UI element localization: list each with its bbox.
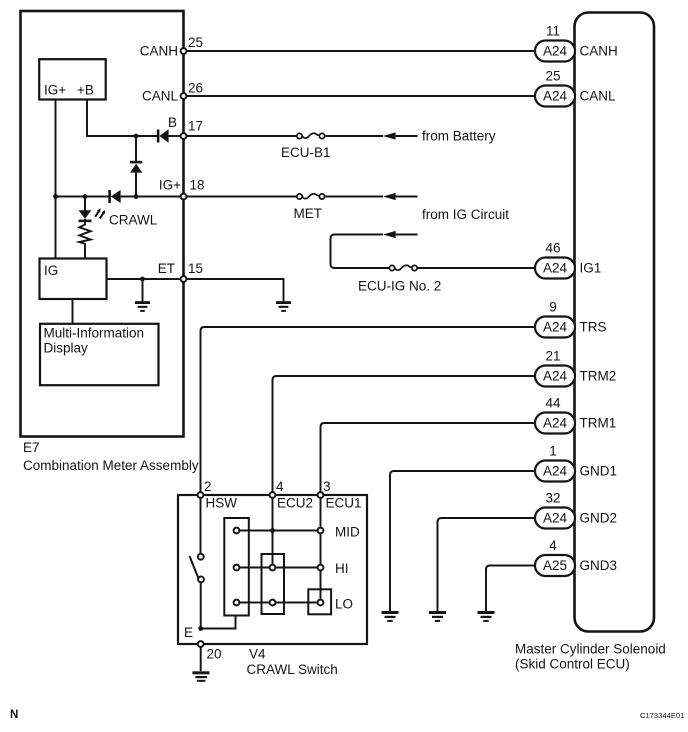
svg-text:E: E bbox=[184, 625, 193, 640]
ground GND2 bbox=[429, 611, 446, 622]
svg-text:(Skid Control ECU): (Skid Control ECU) bbox=[515, 657, 630, 672]
connector A24 pin 1 GND1 bbox=[535, 444, 617, 482]
svg-text:Combination Meter Assembly: Combination Meter Assembly bbox=[23, 458, 199, 473]
pin circle 4 ECU2 bbox=[270, 492, 276, 498]
svg-text:+B: +B bbox=[77, 83, 94, 98]
svg-text:18: 18 bbox=[190, 178, 205, 193]
svg-text:25: 25 bbox=[545, 69, 560, 84]
connector A25 pin 4 GND3 bbox=[535, 538, 617, 576]
contact circle LO slider1 bbox=[234, 600, 240, 606]
resistor (zigzag) bbox=[79, 222, 90, 258]
svg-text:CANL: CANL bbox=[580, 89, 617, 104]
wire IG+ drop through row 18 into IG box bbox=[55, 100, 57, 259]
wire ECU2 vertical bbox=[272, 495, 274, 568]
svg-text:A24: A24 bbox=[543, 416, 568, 431]
pin circle 15 bbox=[181, 276, 187, 282]
switch block MID/HI/LO left slider bbox=[224, 518, 249, 616]
wire CANL row pin 26 to A24 bbox=[184, 95, 536, 97]
wire ECU1 vertical bbox=[320, 495, 322, 603]
wire GND1 row to ground bbox=[390, 471, 535, 611]
svg-text:CANH: CANH bbox=[140, 44, 178, 59]
svg-text:IG: IG bbox=[44, 263, 58, 278]
contact circle HI slider2 bbox=[270, 565, 276, 571]
fuse ECU-B1 bbox=[281, 133, 331, 160]
wire diode to pin 18 bbox=[121, 196, 184, 198]
svg-text:TRM1: TRM1 bbox=[580, 416, 617, 431]
svg-text:21: 21 bbox=[545, 349, 560, 364]
svg-text:2: 2 bbox=[204, 479, 212, 494]
wire IG circuit branch row bbox=[396, 234, 418, 236]
svg-text:V4: V4 bbox=[249, 647, 266, 662]
svg-text:A24: A24 bbox=[543, 464, 568, 479]
junction row18/branch bbox=[134, 194, 139, 199]
master cylinder solenoid (skid control ECU) box bbox=[515, 13, 666, 672]
svg-text:MET: MET bbox=[294, 206, 323, 221]
svg-text:20: 20 bbox=[207, 647, 222, 662]
svg-text:HSW: HSW bbox=[206, 496, 238, 511]
svg-text:LO: LO bbox=[335, 597, 353, 612]
pin circle 3 ECU1 bbox=[318, 492, 324, 498]
junction row18/IG+ bbox=[53, 194, 58, 199]
wire arrow to corner and down to IG1 row bbox=[331, 235, 390, 269]
wire ET row from IG box to pin 15 bbox=[107, 278, 184, 280]
wire TRM1 row to switch pin 3 bbox=[321, 423, 536, 495]
svg-text:26: 26 bbox=[188, 81, 203, 96]
svg-text:IG1: IG1 bbox=[580, 261, 602, 276]
svg-text:1: 1 bbox=[549, 444, 557, 459]
svg-text:CANL: CANL bbox=[142, 89, 179, 104]
wire MID row bbox=[237, 530, 321, 532]
wire row 18 left segment bbox=[56, 196, 109, 198]
connector A24 pin 32 GND2 bbox=[535, 491, 617, 529]
svg-text:CRAWL: CRAWL bbox=[109, 213, 158, 228]
arrow IG feed bbox=[383, 193, 396, 200]
pin circle 26 CANL bbox=[181, 93, 187, 99]
svg-text:TRS: TRS bbox=[580, 320, 607, 335]
contact circle HI slider1 bbox=[234, 565, 240, 571]
pin circle 20 bbox=[198, 641, 204, 647]
wire HI row bbox=[237, 567, 321, 569]
svg-text:44: 44 bbox=[545, 396, 561, 411]
svg-text:25: 25 bbox=[188, 35, 203, 50]
CRAWL switch V4 box bbox=[178, 479, 367, 677]
pin circle 18 bbox=[181, 194, 187, 200]
switch block LO box bbox=[308, 589, 331, 614]
wire HSW upper bbox=[200, 495, 202, 554]
wire ET row right of pin 15 to ground bbox=[184, 279, 284, 302]
svg-text:TRM2: TRM2 bbox=[580, 369, 617, 384]
arrow from Battery bbox=[383, 132, 396, 139]
svg-text:15: 15 bbox=[188, 261, 203, 276]
diode row 18 (pointing left) bbox=[108, 190, 120, 203]
switch blade HSW bbox=[190, 556, 199, 579]
pin circle 25 CANH bbox=[181, 48, 187, 54]
contact circle LO slider2 bbox=[270, 600, 276, 606]
contact circle LO box bbox=[318, 600, 324, 606]
connector A24 pin 44 TRM1 bbox=[535, 396, 616, 434]
wire arrow tail bbox=[396, 196, 418, 198]
wire diode to pin 17 bbox=[169, 135, 184, 137]
svg-text:CRAWL Switch: CRAWL Switch bbox=[247, 662, 338, 677]
wire row 18 pin to fuse bbox=[184, 196, 298, 198]
svg-text:A24: A24 bbox=[543, 89, 568, 104]
svg-text:HI: HI bbox=[335, 561, 349, 576]
wire +B drop to row 17 bbox=[87, 100, 157, 137]
svg-text:A24: A24 bbox=[543, 261, 568, 276]
svg-text:ECU-B1: ECU-B1 bbox=[281, 145, 331, 160]
svg-text:ECU-IG No. 2: ECU-IG No. 2 bbox=[358, 279, 441, 294]
ground (right of pin 15) bbox=[276, 301, 291, 312]
wire arrow tail bbox=[396, 135, 418, 137]
svg-text:4: 4 bbox=[276, 479, 284, 494]
fuse ECU-IG No. 2 bbox=[358, 265, 441, 293]
svg-text:A25: A25 bbox=[543, 558, 567, 573]
LED light arrows bbox=[95, 208, 105, 218]
pin circle 17 bbox=[181, 133, 187, 139]
switch block middle slider bbox=[262, 554, 285, 614]
svg-text:ECU2: ECU2 bbox=[277, 496, 313, 511]
svg-text:IG+: IG+ bbox=[159, 178, 181, 193]
wire GND2 row to ground bbox=[438, 518, 536, 611]
connector A24 pin 21 TRM2 bbox=[535, 349, 616, 387]
connector A24 pin 11 CANH bbox=[535, 24, 618, 62]
wire vertical diode to row 18 bbox=[135, 173, 137, 197]
svg-text:46: 46 bbox=[545, 241, 560, 256]
wire row 17 pin to fuse bbox=[184, 135, 298, 137]
svg-text:4: 4 bbox=[549, 538, 557, 553]
svg-text:32: 32 bbox=[545, 491, 560, 506]
LED CRAWL (pointing down) bbox=[79, 210, 92, 222]
svg-text:from IG Circuit: from IG Circuit bbox=[422, 207, 509, 222]
svg-text:GND1: GND1 bbox=[580, 464, 618, 479]
diode B (row 17, pointing left) bbox=[157, 129, 169, 142]
ground (ET inner) bbox=[135, 301, 150, 312]
junction row18/LED bbox=[83, 194, 88, 199]
connector A24 pin 9 TRS bbox=[535, 300, 607, 338]
wire pin 20 to ground bbox=[200, 644, 202, 671]
junction ET/ground bbox=[140, 277, 145, 282]
svg-text:IG+: IG+ bbox=[44, 83, 66, 98]
svg-text:Display: Display bbox=[44, 341, 89, 356]
contact circle MID ECU1 bbox=[318, 528, 324, 534]
ground pin 20 bbox=[192, 671, 209, 682]
wire row 17 branch down bbox=[135, 136, 137, 162]
contact circle HSW lower bbox=[198, 577, 204, 583]
LED CRAWL branch wire bbox=[84, 197, 86, 211]
svg-text:3: 3 bbox=[323, 479, 331, 494]
arrow IG circuit branch bbox=[383, 231, 396, 238]
junction row17/branch bbox=[134, 134, 139, 139]
contact circle HSW upper bbox=[198, 554, 204, 560]
diode vertical (pointing up) bbox=[130, 161, 142, 173]
fuse MET bbox=[294, 194, 325, 221]
connector A24 pin 46 IG1 bbox=[535, 241, 601, 279]
wire fuse to arrow bbox=[325, 196, 384, 198]
multi-information display box bbox=[40, 324, 159, 385]
wire CANH row pin 25 to A24 bbox=[184, 50, 536, 52]
svg-text:C173344E01: C173344E01 bbox=[640, 711, 684, 720]
E7 combination meter assembly box bbox=[21, 11, 199, 473]
contact circle MID slider1 bbox=[234, 528, 240, 534]
wire IG box to display box bbox=[72, 299, 74, 324]
svg-text:9: 9 bbox=[549, 300, 557, 315]
svg-text:11: 11 bbox=[546, 24, 560, 39]
svg-text:17: 17 bbox=[188, 119, 203, 134]
ground GND1 bbox=[382, 611, 399, 622]
svg-text:Master Cylinder Solenoid: Master Cylinder Solenoid bbox=[515, 642, 666, 657]
wire ET ground branch bbox=[142, 279, 144, 302]
svg-text:MID: MID bbox=[335, 525, 360, 540]
svg-text:ET: ET bbox=[158, 261, 175, 276]
wire LO row bbox=[237, 602, 321, 604]
svg-text:B: B bbox=[168, 115, 177, 130]
svg-text:CANH: CANH bbox=[580, 44, 618, 59]
junction E bbox=[198, 626, 203, 631]
svg-text:A24: A24 bbox=[543, 44, 568, 59]
contact circle HI ECU1 bbox=[318, 565, 324, 571]
IG box bbox=[40, 259, 107, 300]
wire E to slider bottom bbox=[201, 616, 236, 629]
connector A24 pin 25 CANL bbox=[535, 69, 616, 107]
wire TRM2 row to switch pin 4 bbox=[273, 376, 536, 495]
pin circle 2 HSW bbox=[198, 492, 204, 498]
wire fuse to IG1 oval bbox=[417, 267, 535, 269]
svg-text:GND3: GND3 bbox=[580, 558, 618, 573]
svg-text:ECU1: ECU1 bbox=[326, 496, 362, 511]
wire fuse to arrow bbox=[325, 135, 384, 137]
svg-text:A24: A24 bbox=[543, 511, 568, 526]
svg-text:A24: A24 bbox=[543, 320, 568, 335]
svg-text:GND2: GND2 bbox=[580, 511, 618, 526]
svg-text:Multi-Information: Multi-Information bbox=[44, 326, 145, 341]
svg-text:E7: E7 bbox=[23, 440, 40, 455]
wire TRS row to switch pin 2 bbox=[201, 327, 536, 495]
svg-text:A24: A24 bbox=[543, 369, 568, 384]
svg-text:N: N bbox=[10, 709, 18, 721]
ground GND3 bbox=[478, 611, 495, 622]
wire HSW lower bbox=[200, 582, 202, 629]
IG+/+B power input box bbox=[39, 59, 106, 99]
junction ECU2/MID bbox=[270, 528, 275, 533]
wire GND3 row to ground bbox=[486, 566, 535, 612]
svg-text:from Battery: from Battery bbox=[422, 128, 496, 143]
